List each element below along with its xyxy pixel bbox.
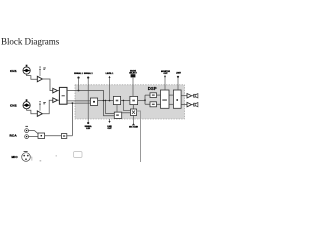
- wire rca1-rca2: [45, 135, 62, 137]
- wire C-E: [132, 105, 134, 109]
- node j4: [144, 99, 146, 101]
- wire bus top: [67, 91, 114, 116]
- block B: [113, 96, 120, 104]
- wire CH2 to amp: [27, 109, 38, 114]
- gain pot CH2: [39, 104, 41, 110]
- mic gain arrow: [133, 116, 135, 124]
- ADC block U1: [59, 87, 67, 104]
- node j6: [105, 100, 106, 101]
- buffer amp 1: [53, 88, 58, 93]
- wire A-B: [98, 100, 114, 102]
- op-amp CH2: [37, 111, 42, 117]
- faint mark: [40, 159, 42, 162]
- connector RCA R: [25, 135, 29, 139]
- block A sum: [90, 98, 97, 105]
- wire E out down: [137, 111, 141, 162]
- node j5: [103, 100, 105, 102]
- speaker 1: [194, 94, 196, 97]
- limit stub top: [177, 78, 179, 91]
- mic tiny label: [24, 151, 28, 152]
- svg-text:RCA: RCA: [10, 133, 18, 137]
- power amp 1: [187, 94, 192, 99]
- wire rca: [29, 131, 39, 134]
- block F eq1: [150, 93, 157, 98]
- node j7: [123, 100, 125, 102]
- wire I-amps: [181, 95, 187, 97]
- wire branch to E: [123, 100, 130, 110]
- svg-text:SIGNAL 1: SIGNAL 1: [74, 72, 83, 75]
- rca tiny label: [25, 126, 28, 127]
- svg-text:LIMIT: LIMIT: [176, 73, 182, 75]
- connector CH1: [23, 67, 30, 74]
- svg-text:CH1: CH1: [10, 69, 17, 73]
- wire H-I: [169, 94, 173, 96]
- block D: [114, 112, 121, 118]
- buffer amp 2: [53, 98, 58, 103]
- svg-text:MIC: MIC: [12, 155, 19, 159]
- connector CH2 pin square: [26, 99, 28, 101]
- svg-text:SELECT: SELECT: [129, 72, 137, 74]
- svg-text:DSP: DSP: [148, 86, 157, 91]
- svg-text:SIGNAL 2: SIGNAL 2: [84, 72, 93, 75]
- LED stub 2: [87, 79, 89, 123]
- wire CH1 amp out: [42, 79, 52, 91]
- block rca1: [38, 133, 45, 138]
- wire CH1 to amp: [27, 74, 38, 79]
- switch stub top: [132, 78, 134, 97]
- svg-text:Block Diagrams: Block Diagrams: [1, 37, 60, 47]
- svg-text:LEVEL 1: LEVEL 1: [106, 73, 114, 75]
- connector MIC xlr: [22, 153, 31, 162]
- arrow stub bottom: [109, 119, 111, 121]
- pot stub top: [109, 78, 111, 101]
- svg-text:LED: LED: [86, 128, 90, 130]
- wire D-E: [122, 112, 131, 114]
- speaker 2: [194, 103, 196, 106]
- block C: [130, 96, 138, 104]
- wire branch to D: [106, 100, 115, 113]
- gain pot CH1: [39, 70, 41, 76]
- faint mark 2: [56, 155, 57, 156]
- wire rca2 out: [67, 135, 73, 137]
- wire bus double: [67, 100, 90, 102]
- DSP shaded region: [75, 85, 185, 119]
- connector CH2: [23, 102, 30, 109]
- wire F-H G-H: [157, 94, 161, 96]
- op-amp CH1: [37, 76, 42, 82]
- power amp 2: [187, 102, 192, 107]
- wire B-D: [116, 105, 118, 113]
- block E mixer: [131, 109, 137, 116]
- connector RCA L: [25, 129, 29, 133]
- wire amp-speaker: [192, 95, 194, 97]
- wire mic hook: [30, 157, 32, 161]
- block G eq2: [150, 102, 157, 107]
- wire CH2 amp out: [42, 100, 52, 114]
- node j8: [109, 100, 111, 102]
- block H limiter: [161, 90, 170, 108]
- wire buffers to ADC: [58, 90, 60, 92]
- block I dac: [173, 90, 181, 108]
- wire C-split: [138, 99, 145, 101]
- svg-text:CH2: CH2: [10, 104, 17, 108]
- LED stub bottom: [87, 122, 89, 124]
- LED stub 1: [78, 79, 80, 91]
- monitor stub top: [164, 77, 166, 90]
- wire rca riser: [71, 103, 73, 136]
- block rca2: [61, 134, 66, 139]
- wire B-C: [121, 100, 130, 102]
- svg-text:MIC GAIN: MIC GAIN: [129, 126, 138, 129]
- faint block: [74, 152, 82, 158]
- connector CH1 pin square: [26, 65, 28, 67]
- node j3: [72, 102, 74, 104]
- node j1: [78, 90, 80, 92]
